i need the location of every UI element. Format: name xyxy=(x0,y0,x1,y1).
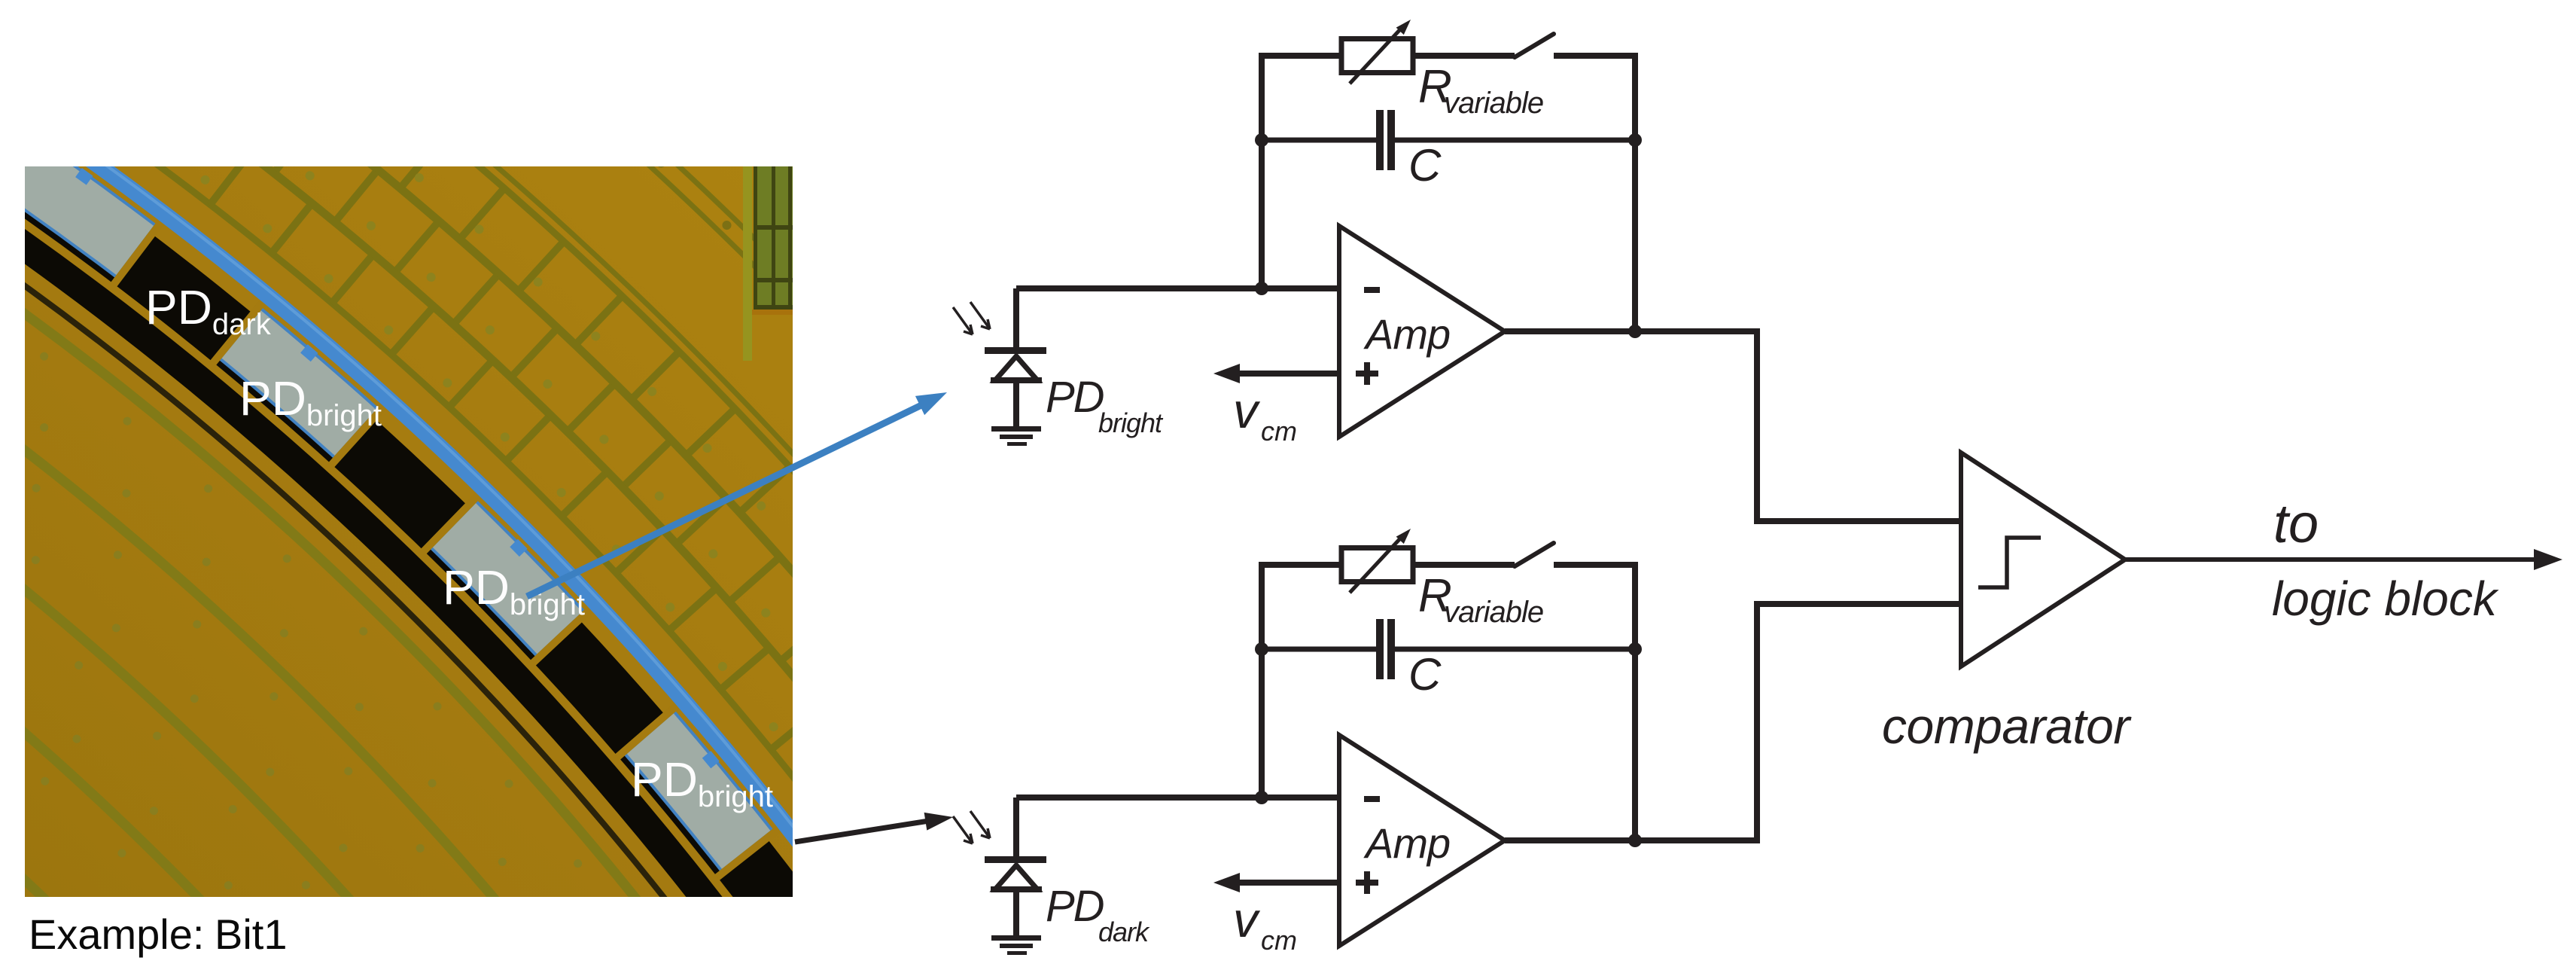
minus sign (bright) xyxy=(1364,287,1380,293)
plus sign (dark) xyxy=(1356,880,1378,886)
wire resistor to switch (dark) xyxy=(1413,562,1515,568)
wire photodiode to inverting input (dark) xyxy=(1016,794,1339,801)
wire feedback top-left segment (bright) xyxy=(1262,53,1340,59)
photodiode symbol (dark) xyxy=(1013,798,1019,856)
plus sign (bright) xyxy=(1356,371,1378,377)
blue arrow photo to PD_bright symbol xyxy=(527,405,921,596)
node dot C-right (dark) xyxy=(1628,642,1642,656)
switch (feedback reset) (bright) xyxy=(1515,34,1554,57)
node dot output/feedback (bright) xyxy=(1628,325,1642,338)
photodiode symbol (bright) xyxy=(1013,288,1019,347)
op-amp Amp (dark) xyxy=(1339,735,1505,946)
svg-text:C: C xyxy=(1408,649,1442,700)
svg-text:logic block: logic block xyxy=(2272,572,2499,626)
chip micrograph photo xyxy=(0,0,1883,979)
switch (feedback reset) (dark) xyxy=(1515,543,1554,566)
ground (dark) xyxy=(991,935,1041,941)
svg-text:Bit1: Bit1 xyxy=(215,910,288,958)
node dot C-right (bright) xyxy=(1628,133,1642,147)
svg-text:cm: cm xyxy=(1261,925,1297,956)
comparator xyxy=(1961,453,2125,666)
node dot inverting junction (dark) xyxy=(1255,791,1268,804)
svg-text:bright: bright xyxy=(1098,407,1164,438)
output wire (dark) xyxy=(1505,837,1757,843)
svg-text:cm: cm xyxy=(1261,416,1297,447)
node dot inverting junction (bright) xyxy=(1255,282,1268,295)
wire switch to right vertical (dark) xyxy=(1554,562,1635,568)
hysteresis step symbol xyxy=(1978,538,2041,587)
light arrows (bright) xyxy=(953,307,973,334)
svg-text:Example:: Example: xyxy=(29,910,204,958)
wire resistor to switch (bright) xyxy=(1413,53,1515,59)
resistor R_variable (bright) xyxy=(1341,39,1413,73)
wire feedback left vertical (bright) xyxy=(1259,53,1265,288)
v_cm arrow (dark) xyxy=(1239,880,1339,886)
svg-text:comparator: comparator xyxy=(1882,698,2132,754)
black arrow photo to PD_dark symbol xyxy=(795,821,929,842)
node dot output/feedback (dark) xyxy=(1628,834,1642,847)
svg-text:variable: variable xyxy=(1444,596,1543,629)
wire bottom amp output to comparator input 2 xyxy=(1757,604,1961,843)
svg-text:Amp: Amp xyxy=(1363,819,1450,867)
svg-text:Amp: Amp xyxy=(1363,310,1450,358)
output wire (bright) xyxy=(1505,328,1757,334)
wire feedback right vertical (dark) xyxy=(1632,562,1638,840)
svg-text:C: C xyxy=(1408,140,1442,191)
wire feedback right vertical (bright) xyxy=(1632,53,1638,331)
light arrows (dark) xyxy=(953,816,973,843)
svg-text:PD: PD xyxy=(1046,373,1104,422)
capacitor C (dark) xyxy=(1262,647,1376,652)
svg-text:to: to xyxy=(2273,494,2319,554)
node dot C-left (dark) xyxy=(1255,642,1268,656)
capacitor C (bright) xyxy=(1262,138,1376,143)
v_cm arrow (bright) xyxy=(1239,371,1339,377)
minus sign (dark) xyxy=(1364,796,1380,802)
resistor R_variable (dark) xyxy=(1341,548,1413,582)
ground (bright) xyxy=(991,426,1041,432)
svg-text:v: v xyxy=(1233,892,1261,947)
wire feedback left vertical (dark) xyxy=(1259,562,1265,798)
svg-text:variable: variable xyxy=(1444,87,1543,120)
svg-text:v: v xyxy=(1233,383,1261,438)
wire feedback top-left segment (dark) xyxy=(1262,562,1340,568)
svg-text:dark: dark xyxy=(1098,916,1150,947)
node dot C-left (bright) xyxy=(1255,133,1268,147)
wire photodiode to inverting input (bright) xyxy=(1016,285,1339,291)
wire switch to right vertical (bright) xyxy=(1554,53,1635,59)
wire top amp output to comparator input 1 xyxy=(1757,328,1961,521)
op-amp Amp (bright) xyxy=(1339,226,1505,437)
svg-text:PD: PD xyxy=(1046,882,1104,931)
output arrow to logic block xyxy=(2125,557,2538,562)
